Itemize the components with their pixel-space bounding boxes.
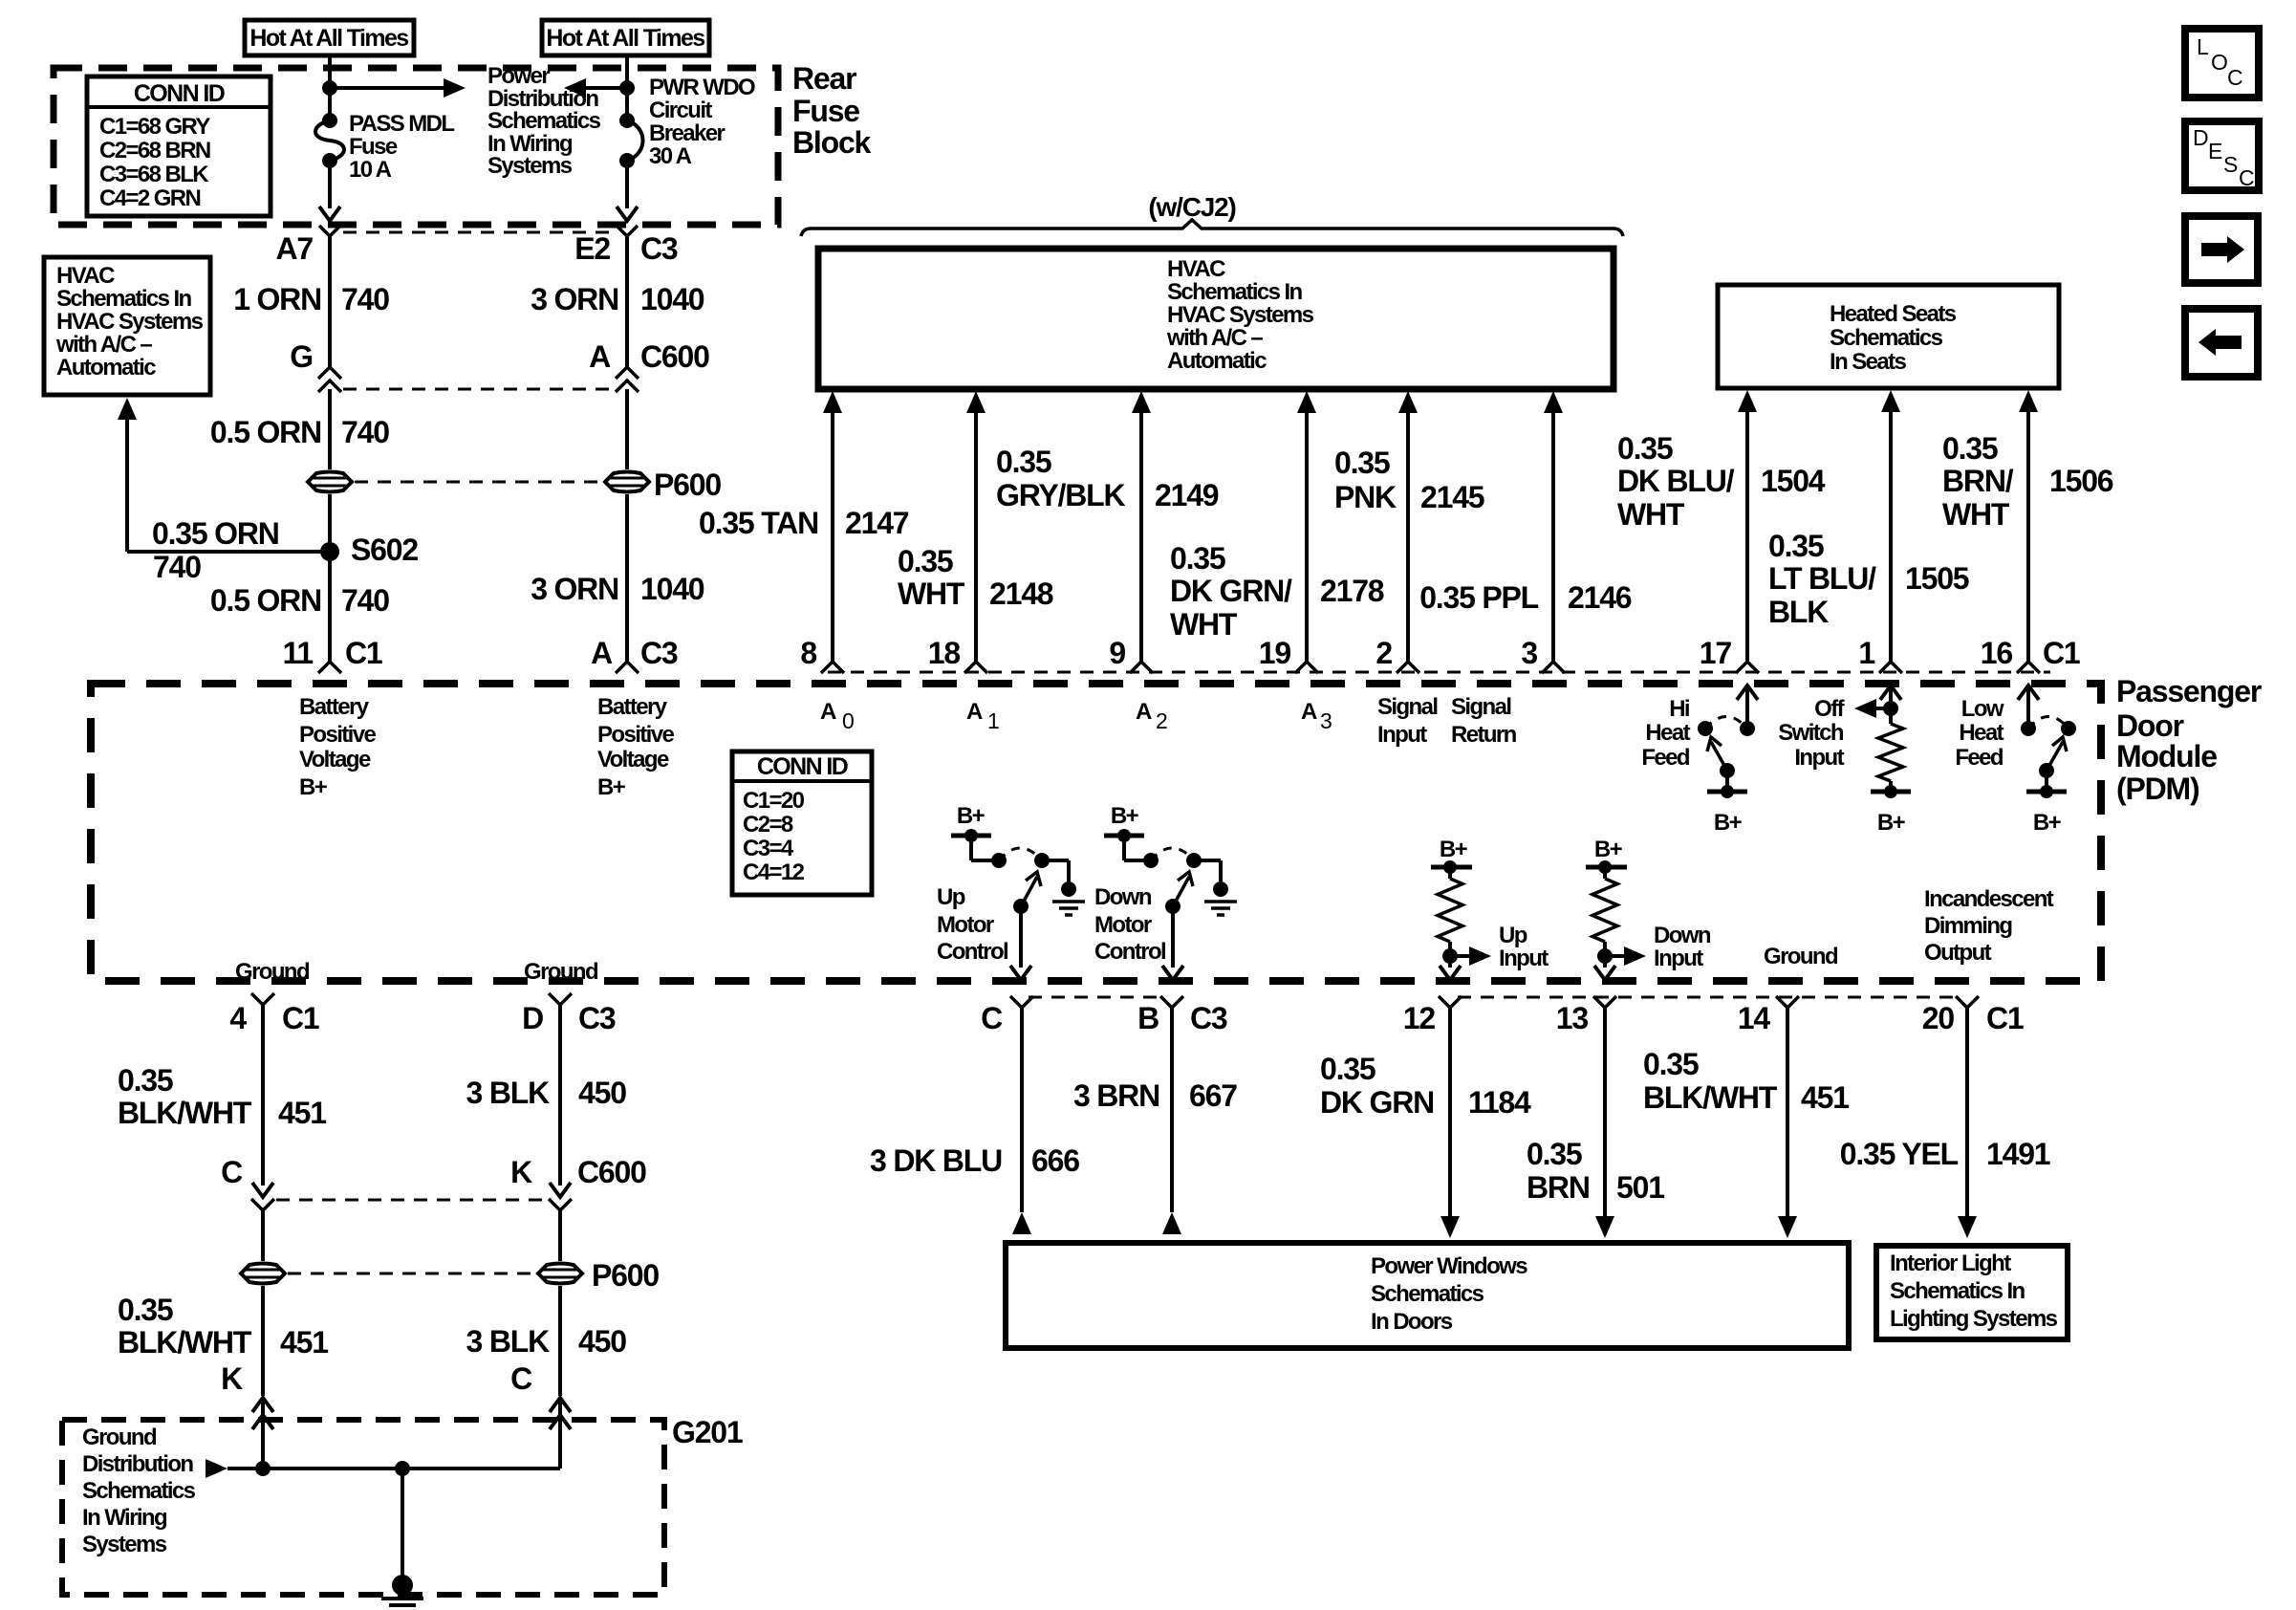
svg-text:Feed: Feed [1641, 745, 1690, 771]
connector ID table (rear fuse block) [87, 76, 271, 216]
svg-text:3 BLK: 3 BLK [466, 1324, 551, 1359]
wire fuse to connector A7 [328, 161, 332, 208]
svg-text:HVAC Systems: HVAC Systems [56, 309, 204, 335]
svg-text:Systems: Systems [487, 153, 573, 179]
svg-text:2148: 2148 [989, 577, 1053, 611]
svg-text:C1: C1 [345, 636, 382, 670]
svg-text:Module: Module [2116, 739, 2217, 773]
circuit breaker PWR WDO 30A [619, 113, 635, 128]
svg-text:C4=12: C4=12 [743, 859, 805, 885]
svg-text:Power: Power [487, 63, 550, 89]
svg-text:DK GRN/: DK GRN/ [1170, 574, 1292, 608]
node ground bus left [255, 1461, 271, 1476]
svg-text:1: 1 [1858, 636, 1874, 670]
wire K to P600 [558, 1210, 562, 1261]
svg-text:Down: Down [1094, 884, 1152, 910]
svg-text:CONN ID: CONN ID [134, 80, 225, 107]
svg-text:2178: 2178 [1320, 574, 1384, 608]
wire 0.35 BLK/WHT 451 (pin 4 down) [261, 1005, 265, 1186]
svg-text:C1=68 GRY: C1=68 GRY [99, 114, 210, 140]
svg-text:Fuse: Fuse [792, 94, 859, 128]
svg-text:C: C [510, 1361, 532, 1396]
svg-text:1506: 1506 [2049, 464, 2113, 498]
svg-text:B+: B+ [2033, 810, 2062, 836]
svg-text:Systems: Systems [82, 1532, 167, 1557]
pin 20 C1 [1956, 996, 1979, 1008]
svg-text:Heat: Heat [1645, 720, 1690, 746]
svg-text:Signal: Signal [1451, 694, 1510, 720]
dashed link to P600 [355, 481, 602, 484]
svg-text:B+: B+ [299, 774, 328, 800]
svg-text:Block: Block [792, 125, 872, 160]
svg-text:S: S [2223, 152, 2238, 177]
svg-text:C: C [2227, 65, 2242, 90]
svg-text:8: 8 [800, 636, 816, 670]
svg-text:BLK/WHT: BLK/WHT [1643, 1080, 1778, 1115]
svg-text:Distribution: Distribution [82, 1451, 193, 1477]
svg-text:with A/C –: with A/C – [1166, 325, 1263, 351]
svg-text:14: 14 [1738, 1001, 1771, 1035]
pin C [1010, 996, 1033, 1008]
pin 14 [1776, 996, 1799, 1008]
svg-text:666: 666 [1031, 1143, 1079, 1178]
svg-text:Input: Input [1377, 722, 1427, 748]
wire pin 2 to HVAC box [1398, 391, 1418, 413]
svg-text:1505: 1505 [1905, 561, 1969, 596]
svg-text:Voltage: Voltage [597, 747, 669, 772]
svg-text:Low: Low [1961, 696, 2004, 722]
svg-text:In Wiring: In Wiring [82, 1505, 167, 1531]
svg-text:0.35: 0.35 [1334, 446, 1390, 480]
svg-text:C1: C1 [1986, 1001, 2024, 1035]
svg-text:1 ORN: 1 ORN [233, 282, 321, 316]
svg-text:0.35: 0.35 [898, 544, 953, 578]
wire P600 to G201 (right) [558, 1286, 562, 1396]
svg-text:451: 451 [280, 1325, 328, 1360]
connector C600 row (dashed) [276, 1199, 547, 1202]
pass-through grommet P600 (right) [605, 472, 649, 492]
wire 3 ORN 1040 (P600 to pin A) [625, 494, 629, 662]
svg-text:Breaker: Breaker [649, 120, 725, 146]
svg-text:A: A [1301, 699, 1317, 725]
wire pin 3 to HVAC box [1544, 391, 1563, 413]
svg-text:B+: B+ [1714, 810, 1743, 836]
wire P600 to G201 (left) [261, 1286, 265, 1396]
wire pin 17 to Heated Seats box [1738, 390, 1757, 412]
node junction to power distribution [322, 80, 337, 96]
svg-text:Schematics: Schematics [1371, 1281, 1484, 1307]
fuse PASS MDL 10A [322, 113, 337, 128]
svg-text:1504: 1504 [1761, 464, 1826, 498]
svg-text:A7: A7 [275, 231, 313, 266]
ground G201 dashed box [62, 1420, 664, 1595]
svg-text:Return: Return [1451, 722, 1517, 748]
Passenger Door Module (PDM) dashed outline [91, 684, 2101, 981]
switch Hi Heat Feed [1737, 685, 1758, 700]
svg-text:B+: B+ [957, 803, 986, 829]
connector marks into G201 (left) [252, 1398, 273, 1412]
svg-text:Power Windows: Power Windows [1371, 1253, 1527, 1279]
svg-text:0.35: 0.35 [1768, 529, 1824, 563]
svg-text:0.35 PPL: 0.35 PPL [1419, 580, 1538, 615]
svg-text:3: 3 [1521, 636, 1537, 670]
svg-text:BLK: BLK [1768, 595, 1829, 629]
wire 3 ORN 1040 (E2 to A) [625, 236, 629, 367]
svg-text:Schematics In: Schematics In [56, 286, 192, 312]
svg-text:451: 451 [1801, 1080, 1849, 1115]
svg-text:P600: P600 [654, 468, 721, 502]
svg-text:Fuse: Fuse [349, 134, 398, 160]
svg-text:Heated Seats: Heated Seats [1830, 301, 1957, 327]
reference box HVAC Schematics (center) [818, 249, 1614, 389]
svg-text:K: K [221, 1361, 243, 1396]
svg-text:WHT: WHT [1942, 497, 2010, 532]
pin 4 C1 [251, 993, 274, 1005]
svg-text:Up: Up [1499, 923, 1527, 948]
pass-through grommet P600 (ground, left) [241, 1264, 285, 1284]
svg-text:2145: 2145 [1420, 480, 1484, 514]
svg-text:BLK/WHT: BLK/WHT [118, 1096, 252, 1130]
svg-text:1491: 1491 [1986, 1137, 2050, 1171]
wire from Hot At All Times to fuse [328, 55, 332, 120]
wire arrow to Power Distribution Schematics (left-pointing) [571, 86, 627, 90]
svg-text:740: 740 [341, 583, 389, 618]
svg-text:O: O [2211, 50, 2227, 75]
svg-text:Automatic: Automatic [56, 355, 156, 381]
pin 13 [1593, 996, 1616, 1008]
pass-through grommet P600 (ground, right) [538, 1264, 582, 1284]
svg-text:D: D [2193, 125, 2208, 150]
svg-text:3 DK BLU: 3 DK BLU [870, 1143, 1002, 1178]
splice S602 [320, 542, 339, 561]
wire breaker to connector E2 [625, 161, 629, 208]
svg-text:C600: C600 [640, 339, 709, 374]
pin 12 [1439, 996, 1462, 1008]
wire into G201 (right) [558, 1398, 562, 1469]
svg-text:Positive: Positive [299, 722, 376, 748]
svg-text:WHT: WHT [1170, 607, 1238, 642]
svg-text:L: L [2197, 34, 2209, 59]
svg-text:0.35: 0.35 [1643, 1047, 1699, 1081]
svg-text:0.35: 0.35 [118, 1063, 173, 1098]
svg-text:Passenger: Passenger [2116, 674, 2262, 708]
wire pin 1 to Heated Seats box [1881, 390, 1900, 412]
svg-text:0.35: 0.35 [1320, 1052, 1375, 1086]
wire pin 16 to Heated Seats box [2019, 390, 2038, 412]
svg-text:0.35: 0.35 [1527, 1137, 1582, 1171]
svg-text:2: 2 [1156, 708, 1167, 733]
svg-text:B+: B+ [1111, 803, 1139, 829]
reference box Power Windows Schematics In Doors [1006, 1243, 1849, 1348]
svg-text:Voltage: Voltage [299, 747, 371, 772]
wire 0.35 YEL 1491 (pin 20 down) [1965, 1008, 1969, 1219]
wire arrow to Power Distribution Schematics [330, 86, 457, 90]
svg-text:B: B [1137, 1001, 1159, 1035]
svg-text:GRY/BLK: GRY/BLK [996, 478, 1126, 512]
svg-text:3 ORN: 3 ORN [531, 282, 618, 316]
svg-text:A: A [1136, 699, 1152, 725]
svg-text:C1=20: C1=20 [743, 788, 805, 814]
svg-text:1: 1 [987, 708, 999, 733]
svg-text:PWR WDO: PWR WDO [649, 75, 755, 100]
node ground bus center [395, 1461, 410, 1476]
svg-text:C: C [221, 1155, 243, 1189]
svg-text:Positive: Positive [597, 722, 674, 748]
svg-text:0.35 ORN: 0.35 ORN [152, 516, 279, 551]
svg-text:0.35: 0.35 [1617, 431, 1673, 466]
icon box arrow left [2185, 309, 2258, 377]
wire C to P600 [261, 1210, 265, 1261]
svg-text:Output: Output [1924, 940, 1992, 966]
reference box HVAC Schematics (left) [44, 257, 210, 395]
svg-text:PASS MDL: PASS MDL [349, 111, 454, 137]
svg-text:Hi: Hi [1669, 696, 1689, 722]
svg-text:Off: Off [1814, 696, 1845, 722]
ground symbol G201 [392, 1575, 413, 1596]
svg-text:C: C [981, 1001, 1003, 1035]
pin D C3 [549, 993, 572, 1005]
svg-text:HVAC Systems: HVAC Systems [1167, 302, 1314, 328]
svg-text:Incandescent: Incandescent [1924, 886, 2054, 912]
svg-text:Ground: Ground [235, 959, 310, 985]
brace (w/CJ2) [801, 220, 1623, 236]
svg-text:BRN/: BRN/ [1942, 464, 2014, 498]
svg-text:Battery: Battery [597, 694, 668, 720]
svg-text:3 BLK: 3 BLK [466, 1076, 551, 1110]
svg-text:Input: Input [1654, 946, 1703, 971]
svg-text:Door: Door [2116, 708, 2184, 743]
svg-text:Hot At All Times: Hot At All Times [249, 25, 408, 52]
svg-text:16: 16 [1981, 636, 2013, 670]
svg-text:C3=68 BLK: C3=68 BLK [99, 162, 209, 187]
connector C1 dashed line (bottom, pins 12-20) [1458, 996, 1962, 999]
svg-text:K: K [510, 1155, 532, 1189]
svg-text:A: A [820, 699, 836, 725]
svg-text:WHT: WHT [1617, 497, 1685, 532]
svg-text:Feed: Feed [1955, 745, 2004, 771]
wire 0.35 DK GRN 1184 (pin 12 down) [1448, 1008, 1452, 1219]
pin A7 [319, 226, 340, 236]
svg-text:C3: C3 [578, 1001, 616, 1035]
svg-text:G201: G201 [672, 1415, 743, 1449]
wire pin 9 to HVAC box [1132, 391, 1151, 413]
svg-text:C2=68 BRN: C2=68 BRN [99, 138, 210, 163]
svg-text:In Seats: In Seats [1830, 349, 1906, 375]
svg-text:13: 13 [1556, 1001, 1589, 1035]
icon box DESC [2185, 121, 2259, 190]
svg-text:Schematics In: Schematics In [1890, 1278, 2025, 1304]
svg-text:P600: P600 [592, 1258, 659, 1293]
svg-text:G: G [290, 339, 313, 374]
svg-text:451: 451 [278, 1096, 326, 1130]
wire ground drop [401, 1469, 404, 1577]
wire 0.35 BLK/WHT 451 (pin 14 down) [1786, 1008, 1789, 1219]
svg-text:3 ORN: 3 ORN [531, 572, 618, 606]
wire pin 19 to HVAC box [1297, 391, 1316, 413]
svg-text:Battery: Battery [299, 694, 370, 720]
svg-text:A: A [589, 339, 611, 374]
svg-text:30 A: 30 A [649, 143, 692, 169]
svg-text:CONN ID: CONN ID [757, 753, 848, 780]
svg-text:Signal: Signal [1377, 694, 1437, 720]
svg-text:20: 20 [1922, 1001, 1955, 1035]
svg-text:Schematics: Schematics [82, 1478, 196, 1504]
svg-text:Rear: Rear [792, 61, 856, 96]
svg-text:10 A: 10 A [349, 157, 392, 183]
svg-text:3 BRN: 3 BRN [1073, 1078, 1159, 1113]
svg-text:Control: Control [937, 939, 1007, 965]
svg-text:A: A [591, 636, 613, 670]
reference box Interior Light Schematics [1876, 1246, 2068, 1339]
svg-text:(PDM): (PDM) [2116, 772, 2199, 806]
svg-text:Hot At All Times: Hot At All Times [546, 25, 704, 52]
dashed link P600 (ground) [288, 1273, 535, 1275]
wire A to P600 [625, 389, 629, 469]
svg-text:1040: 1040 [640, 572, 704, 606]
svg-text:Down: Down [1654, 923, 1711, 948]
svg-text:WHT: WHT [898, 577, 965, 611]
connector C1/C3 dashed line (bottom left, pins C-B) [1029, 996, 1165, 999]
connector C1 dashed line (top, pins 8-16) [828, 671, 2050, 674]
svg-text:Schematics In: Schematics In [1167, 279, 1303, 305]
svg-text:B+: B+ [1877, 810, 1906, 836]
svg-text:Ground: Ground [1764, 944, 1838, 969]
svg-text:A: A [966, 699, 983, 725]
wire into G201 (left) [261, 1398, 265, 1469]
wire 0.35 BRN 501 (pin 13 down) [1603, 1008, 1607, 1219]
wire to splice S602 [328, 494, 332, 662]
svg-text:B+: B+ [1440, 837, 1468, 862]
svg-text:0.5 ORN: 0.5 ORN [210, 415, 321, 449]
wire from Hot At All Times to breaker [625, 55, 629, 120]
svg-text:Heat: Heat [1959, 720, 2004, 746]
svg-text:C3: C3 [640, 636, 678, 670]
wire 3 BLK 450 (pin D down) [558, 1005, 562, 1186]
svg-text:C3: C3 [1190, 1001, 1227, 1035]
svg-text:HVAC: HVAC [1167, 256, 1225, 282]
svg-text:9: 9 [1109, 636, 1125, 670]
svg-text:Schematics: Schematics [487, 108, 601, 134]
svg-text:HVAC: HVAC [56, 263, 115, 289]
svg-text:BRN: BRN [1527, 1170, 1590, 1205]
svg-text:Ground: Ground [82, 1425, 157, 1450]
pass-through grommet P600 (left) [308, 472, 352, 492]
svg-text:C1: C1 [282, 1001, 319, 1035]
arrow from ground distribution [206, 1459, 227, 1478]
svg-text:0: 0 [842, 708, 854, 733]
switch Low Heat Feed [2018, 685, 2039, 700]
svg-text:Up: Up [937, 884, 965, 910]
connector marks into G201 (right) [550, 1398, 571, 1412]
pin E2 C3 [617, 226, 638, 236]
svg-text:Lighting Systems: Lighting Systems [1890, 1306, 2058, 1332]
svg-text:18: 18 [928, 636, 961, 670]
switch Off / resistor Switch Input [1880, 685, 1901, 700]
svg-text:4: 4 [229, 1001, 247, 1035]
svg-text:740: 740 [341, 415, 389, 449]
svg-text:Dimming: Dimming [1924, 913, 2012, 939]
svg-text:450: 450 [578, 1324, 626, 1359]
svg-text:Input: Input [1499, 946, 1549, 971]
svg-text:3: 3 [1320, 708, 1332, 733]
svg-text:C1: C1 [2043, 636, 2080, 670]
pin B C3 [1160, 996, 1183, 1008]
svg-text:Circuit: Circuit [649, 98, 712, 123]
svg-text:Automatic: Automatic [1167, 348, 1267, 374]
svg-text:Ground: Ground [524, 959, 598, 985]
svg-text:LT BLU/: LT BLU/ [1768, 561, 1876, 596]
svg-text:12: 12 [1403, 1001, 1436, 1035]
svg-text:Control: Control [1094, 939, 1165, 965]
connector row A7-E2 (dashed) [343, 231, 614, 234]
wire 3 BRN 667 (pin B down) [1170, 1008, 1174, 1212]
svg-text:2149: 2149 [1155, 478, 1219, 512]
wire tap 0.35 ORN 740 to HVAC [127, 550, 330, 554]
svg-text:DK BLU/: DK BLU/ [1617, 464, 1735, 498]
node junction to power distribution (right) [619, 80, 635, 96]
svg-text:Input: Input [1794, 745, 1844, 771]
svg-text:0.35: 0.35 [996, 445, 1051, 479]
svg-text:with A/C –: with A/C – [55, 332, 152, 358]
svg-text:0.35: 0.35 [1170, 541, 1225, 576]
svg-text:11: 11 [283, 636, 314, 670]
svg-text:C4=2 GRN: C4=2 GRN [99, 185, 201, 211]
icon box arrow right [2185, 216, 2258, 283]
svg-text:Schematics: Schematics [1830, 325, 1943, 351]
svg-text:0.5 ORN: 0.5 ORN [210, 583, 321, 618]
svg-text:2146: 2146 [1568, 580, 1632, 615]
svg-text:17: 17 [1700, 636, 1732, 670]
svg-text:BLK/WHT: BLK/WHT [118, 1325, 252, 1360]
svg-text:PNK: PNK [1334, 480, 1397, 514]
svg-text:B+: B+ [1594, 837, 1623, 862]
svg-text:Motor: Motor [1094, 912, 1152, 938]
svg-text:2147: 2147 [845, 506, 909, 540]
rear fuse block (dashed outline) [54, 68, 778, 225]
reference box Heated Seats Schematics [1718, 285, 2059, 388]
svg-text:B+: B+ [597, 774, 626, 800]
svg-text:0.35: 0.35 [1942, 431, 1998, 466]
svg-text:C3=4: C3=4 [743, 836, 794, 861]
svg-text:0.35: 0.35 [118, 1293, 173, 1327]
wire 0.5 ORN 740 (G to pass-through) [328, 389, 332, 469]
label box Hot At All Times (left) [245, 20, 414, 55]
svg-text:0.35 YEL: 0.35 YEL [1840, 1137, 1959, 1171]
svg-text:740: 740 [341, 282, 389, 316]
svg-text:C: C [2239, 165, 2254, 190]
connector row G-A dashed [343, 388, 614, 391]
svg-text:E: E [2208, 139, 2222, 163]
svg-text:Motor: Motor [937, 912, 994, 938]
svg-text:D: D [522, 1001, 543, 1035]
svg-text:1040: 1040 [640, 282, 704, 316]
svg-text:Interior Light: Interior Light [1890, 1251, 2011, 1276]
svg-text:740: 740 [153, 550, 201, 584]
svg-text:In Doors: In Doors [1371, 1309, 1453, 1335]
svg-text:(w/CJ2): (w/CJ2) [1148, 192, 1235, 222]
connector ID table (PDM) [732, 751, 872, 895]
svg-text:501: 501 [1616, 1170, 1664, 1205]
wire 3 DK BLU 666 (pin C down) [1020, 1008, 1024, 1212]
wire 1 ORN 740 (A7 to G) [328, 236, 332, 367]
wire pin 8 to HVAC box [823, 391, 842, 413]
svg-text:S602: S602 [351, 533, 418, 567]
svg-text:C3: C3 [640, 231, 678, 266]
wire pin 18 to HVAC box [966, 391, 986, 413]
label box Hot At All Times (right) [542, 20, 709, 55]
svg-text:667: 667 [1189, 1078, 1237, 1113]
svg-text:1184: 1184 [1468, 1085, 1531, 1120]
